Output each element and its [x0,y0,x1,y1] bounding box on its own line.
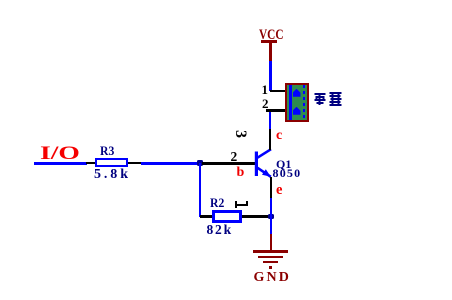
connector label (CJK text) [313,92,344,107]
pin number 2 (base) [231,150,238,164]
resistor R2 [212,210,242,223]
wire resistor R3 left lead (black) [86,162,97,164]
wire resistor R3 right lead (black) [128,162,142,164]
pin number 1 (connector) [262,83,269,96]
wire R2 left lead (black) [200,215,212,217]
wire pin2 to collector (blue) [269,112,272,130]
junction dot at base node [197,160,203,166]
label R2 designator [210,196,224,209]
ground GND symbol [253,250,288,252]
pin label c [276,129,282,143]
pin label b [237,166,245,180]
wire junction to ground (maroon) [270,234,273,251]
pin number 2 (connector) [262,97,269,110]
wire connector pin 2 (black) [266,109,286,111]
wire connector pin 1 (black) [270,90,286,92]
connector J1 dashed bar [303,85,306,120]
power VCC bar [261,40,277,42]
label R3 value 5.8k [94,168,131,182]
connector J1 body [285,83,309,122]
junction dot at emitter node [268,214,274,220]
connector J1 pad pin2 [293,107,301,115]
no-ERC tick symbol near R2 [235,204,248,206]
resistor R3 [95,158,128,167]
connector J1 left inner bar [289,85,292,120]
wire R3 to junction (blue) [141,162,200,165]
label Q1 designator [276,158,291,170]
wire emitter (black segment) [270,177,273,198]
wire VCC stem (maroon) [269,42,271,61]
connector J1 pad pin1 [293,89,301,97]
label Q1 value 8050 [273,167,302,179]
wire VCC stem (blue) [269,61,271,91]
wire collector (black segment) [269,129,272,150]
label R3 designator [100,144,114,157]
pin label e [276,183,282,198]
transistor Q1 [250,138,282,182]
wire R2 right lead (black) [242,215,269,217]
pin number 3 (collector, rotated) [232,128,248,140]
label GND [254,271,291,285]
wire base node to transistor base (black) [202,162,255,164]
label R2 value 82k [207,223,233,237]
net label I/O [40,144,80,163]
wire base node down to R2 (blue vertical) [199,163,202,217]
power VCC label [259,28,284,43]
wire emitter to junction (blue) [270,198,273,234]
wire I/O horizontal blue segment [34,162,87,165]
